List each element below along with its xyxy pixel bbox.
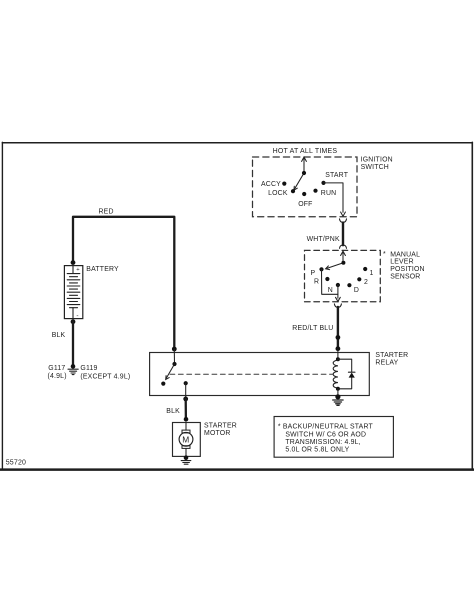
relay switch contact (normally open) bbox=[161, 382, 165, 386]
svg-text:M: M bbox=[182, 435, 189, 445]
ground: starter relay case bbox=[333, 394, 343, 405]
wire WHT/PNK bbox=[342, 223, 344, 246]
ignition switch feed arrow (to HOT AT ALL TIMES) bbox=[302, 157, 307, 173]
node: coil bottom junction bbox=[336, 387, 340, 391]
wire: N contact to MLPS output with arrow bbox=[336, 285, 341, 301]
svg-text:STARTER: STARTER bbox=[375, 352, 408, 359]
relay switch arm with arrow bbox=[166, 364, 175, 380]
node: relay switch input terminal bbox=[172, 347, 177, 352]
svg-text:(4.9L): (4.9L) bbox=[48, 373, 67, 380]
svg-text:1: 1 bbox=[370, 270, 374, 277]
relay switch: input lead bbox=[173, 349, 175, 364]
contact OFF bbox=[302, 192, 306, 196]
relay coil ground lead bbox=[337, 389, 339, 396]
starter motor box bbox=[173, 423, 201, 457]
svg-text:LOCK: LOCK bbox=[268, 190, 288, 197]
contact 2 bbox=[357, 277, 361, 281]
svg-text:R: R bbox=[314, 279, 319, 286]
battery B1 bbox=[64, 266, 82, 319]
connector at MLPS output bbox=[334, 304, 341, 307]
starter motor M1 symbol bbox=[179, 423, 193, 457]
wire BLK: relay output to starter motor bbox=[185, 399, 187, 421]
note: backup/neutral start switch application bbox=[274, 417, 393, 458]
connector at MLPS input bbox=[340, 245, 347, 248]
ignition switch wiper arm bbox=[294, 173, 304, 190]
svg-text:*: * bbox=[383, 251, 386, 258]
svg-text:(EXCEPT 4.9L): (EXCEPT 4.9L) bbox=[80, 374, 130, 381]
svg-text:HOT AT ALL TIMES: HOT AT ALL TIMES bbox=[273, 148, 338, 155]
contact ACCY bbox=[282, 182, 286, 186]
contact N bbox=[336, 283, 340, 287]
svg-text:MANUAL: MANUAL bbox=[390, 251, 420, 258]
svg-text:BATTERY: BATTERY bbox=[86, 266, 119, 273]
svg-text:5.0L OR 5.8L ONLY: 5.0L OR 5.8L ONLY bbox=[285, 447, 349, 454]
diagram border frame (drawn, unlabeled) bbox=[0, 142, 474, 470]
relay switch output contact bbox=[184, 381, 188, 385]
ground: starter motor case bbox=[181, 455, 191, 464]
svg-text:BLK: BLK bbox=[52, 332, 66, 339]
svg-text:WHT/PNK: WHT/PNK bbox=[307, 236, 340, 243]
contact RUN bbox=[313, 189, 317, 193]
wire BLK: battery negative to ground bbox=[72, 322, 74, 367]
node: starter motor terminal bbox=[184, 417, 189, 422]
svg-text:N: N bbox=[328, 287, 333, 294]
ground G117/G119 bbox=[68, 364, 78, 375]
svg-text:RED/LT BLU: RED/LT BLU bbox=[292, 325, 333, 332]
svg-text:55720: 55720 bbox=[6, 459, 26, 466]
contact START bbox=[321, 181, 325, 185]
node: relay coil terminal bbox=[336, 346, 341, 351]
svg-text:RED: RED bbox=[99, 209, 114, 216]
svg-text:STARTER: STARTER bbox=[204, 422, 237, 429]
contact LOCK bbox=[291, 189, 295, 193]
svg-text:D: D bbox=[354, 287, 359, 294]
diode clamp branch bbox=[338, 359, 352, 372]
node: coil top junction bbox=[336, 357, 340, 361]
svg-text:G117: G117 bbox=[48, 365, 65, 372]
svg-text:POSITION: POSITION bbox=[390, 266, 425, 273]
svg-text:MOTOR: MOTOR bbox=[204, 430, 231, 437]
svg-text:* BACKUP/NEUTRAL START: * BACKUP/NEUTRAL START bbox=[278, 424, 374, 431]
svg-text:RELAY: RELAY bbox=[375, 360, 398, 367]
ignition switch dashed box bbox=[253, 157, 358, 217]
connector at ignition switch output bbox=[340, 219, 347, 222]
svg-text:P: P bbox=[311, 270, 316, 277]
node: splice on RED/LT BLU bbox=[336, 335, 341, 340]
svg-text:2: 2 bbox=[364, 279, 368, 286]
svg-text:OFF: OFF bbox=[298, 201, 312, 208]
node: junction dot at battery positive bbox=[71, 260, 76, 265]
wire: P contact jumper to N output bbox=[322, 269, 338, 294]
wire RED/LT BLU bbox=[337, 307, 339, 349]
node: relay output terminal bbox=[183, 397, 188, 402]
svg-text:ACCY: ACCY bbox=[261, 181, 281, 188]
contact R bbox=[325, 277, 329, 281]
svg-text:+: + bbox=[76, 267, 80, 273]
node: MLPS input junction bbox=[341, 261, 345, 265]
svg-text:SENSOR: SENSOR bbox=[390, 274, 420, 281]
svg-text:SWITCH W/ C6 OR AOD: SWITCH W/ C6 OR AOD bbox=[285, 431, 366, 438]
node: junction dot at battery negative bbox=[71, 319, 76, 324]
starter relay box bbox=[150, 353, 370, 396]
diode D1 (clamp diode) bbox=[349, 371, 355, 373]
relay coil winding bbox=[333, 360, 338, 388]
contact P bbox=[319, 267, 323, 271]
svg-text:START: START bbox=[325, 172, 349, 179]
svg-text:TRANSMISSION: 4.9L,: TRANSMISSION: 4.9L, bbox=[285, 439, 360, 446]
relay mechanical linkage (dashed) bbox=[170, 373, 333, 375]
svg-text:G119: G119 bbox=[80, 365, 97, 372]
relay coil lead from terminal bbox=[337, 350, 339, 359]
manual lever position sensor dashed box bbox=[305, 250, 381, 301]
MLPS wiper arm bbox=[326, 263, 344, 270]
svg-text:-: - bbox=[76, 313, 78, 320]
wire: START contact to ignition switch output bbox=[324, 183, 346, 216]
svg-text:SWITCH: SWITCH bbox=[361, 164, 389, 171]
svg-text:IGNITION: IGNITION bbox=[361, 157, 393, 164]
contact D bbox=[347, 283, 351, 287]
svg-text:BLK: BLK bbox=[166, 408, 180, 415]
contact 1 bbox=[363, 267, 367, 271]
svg-text:LEVER: LEVER bbox=[390, 259, 414, 266]
svg-text:RUN: RUN bbox=[321, 190, 337, 197]
MLPS input arrow bbox=[341, 251, 346, 263]
wire RED: battery positive to ignition switch feed / starter relay bbox=[73, 217, 174, 349]
